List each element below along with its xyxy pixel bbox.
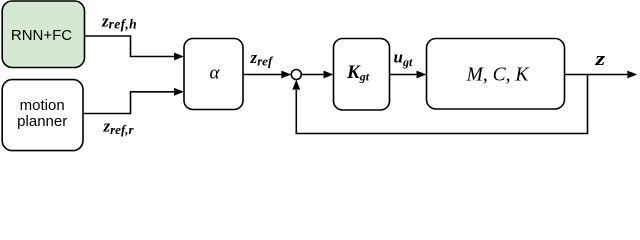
svg-text:z: z [594,48,605,70]
block K_gt [334,39,390,111]
svg-text:zref,h: zref,h [101,11,137,31]
block alpha [184,39,243,110]
wire z_ref,r from motion planner to alpha [83,92,175,114]
wire output z [565,74,629,76]
block M,C,K plant [427,39,565,110]
wire junction to K_gt [301,74,324,76]
arrowhead into plant [417,71,427,79]
svg-text:M, C, K: M, C, K [466,64,530,85]
arrowhead into alpha (top) [174,53,184,61]
svg-text:zref: zref [250,48,274,68]
svg-text:motion: motion [20,97,65,114]
output arrowhead [627,71,637,79]
svg-text:α: α [210,63,221,84]
arrowhead into K_gt [324,71,334,79]
wire u_gt from K_gt to plant [390,74,418,76]
wire z_ref from alpha to summing junction [243,74,282,76]
block RNN+FC [2,1,84,68]
feedback wire from output to junction [296,75,587,134]
svg-text:planner: planner [17,113,67,130]
wire z_ref,h from RNN+FC to alpha [85,36,175,57]
svg-text:ugt: ugt [394,48,413,69]
svg-text:zref,r: zref,r [103,117,135,137]
arrowhead into junction from below [292,80,300,90]
arrowhead into junction [281,71,291,79]
svg-text:RNN+FC: RNN+FC [11,27,72,44]
arrowhead into alpha (bottom) [174,88,184,96]
block motion planner [2,80,83,151]
summing junction node [291,70,301,80]
net label z (output) [594,48,605,70]
